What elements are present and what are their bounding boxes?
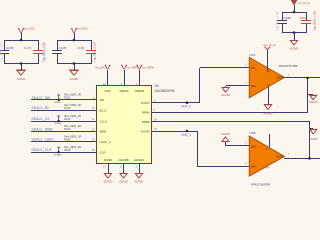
- capacitor C198: [275, 11, 291, 33]
- svg-text:SDAC1_LDAC: SDAC1_LDAC: [32, 138, 55, 142]
- svg-text:Vcc_15_Av: Vcc_15_Av: [298, 2, 311, 5]
- wire top rail group 3: [282, 11, 306, 14]
- svg-text:U7A: U7A: [250, 53, 256, 57]
- svg-text:OUTB: OUTB: [276, 155, 283, 159]
- wire net SDAC1_CLR / resistor R106: [31, 145, 105, 156]
- node VDA_0: [181, 105, 191, 109]
- svg-text:C179: C179: [24, 46, 32, 50]
- wire U7A IN+ to ground: [226, 86, 250, 89]
- svg-text:NOERC: NOERC: [54, 102, 62, 104]
- svg-text:C202: C202: [300, 16, 308, 20]
- svg-text:2IN+: 2IN+: [251, 144, 257, 148]
- wire U7B IN+ to ground: [226, 142, 250, 146]
- svg-text:R105: R105: [64, 138, 71, 142]
- wire bottom rail group 3: [282, 31, 306, 40]
- ground AGND (right of U7A): [308, 95, 318, 105]
- svg-text:2IN+: 2IN+: [251, 84, 257, 88]
- wire U7B V- stub: [269, 134, 271, 147]
- svg-text:DGND: DGND: [104, 180, 114, 184]
- svg-text:OPA227NOTBP: OPA227NOTBP: [251, 182, 270, 186]
- wire top rail group 2: [57, 39, 91, 42]
- wire OUTA: [284, 77, 320, 80]
- svg-text:VDD: VDD: [105, 89, 111, 93]
- pin RFBB: [142, 118, 158, 124]
- pin VDD power: [95, 65, 110, 86]
- capacitor C180: [77, 40, 97, 64]
- svg-text:DGND: DGND: [104, 158, 113, 162]
- wire net SDAC1_B1 / resistor R102: [31, 103, 107, 113]
- wire net SDAC1_LDAC / resistor R105: [31, 135, 111, 145]
- svg-text:AGND: AGND: [221, 93, 231, 97]
- svg-text:NOERC: NOERC: [54, 154, 62, 156]
- wire OUTB: [284, 157, 320, 160]
- svg-text:AGNDB: AGNDB: [118, 158, 128, 162]
- pin IOUTB: [141, 127, 158, 133]
- svg-text:RFBB: RFBB: [142, 120, 150, 124]
- svg-text:VREFA: VREFA: [119, 89, 129, 93]
- pin RFBA: [142, 108, 156, 114]
- svg-text:Cap_0603_2.2uF: Cap_0603_2.2uF: [275, 11, 279, 31]
- svg-text:C198: C198: [284, 16, 292, 20]
- svg-text:IOUTB: IOUTB: [141, 129, 150, 133]
- svg-text:RFBA: RFBA: [142, 110, 150, 114]
- power Vcc_15_Av (cap group 3): [291, 0, 311, 12]
- svg-text:NOERC: NOERC: [54, 123, 62, 125]
- svg-text:AGND: AGND: [309, 137, 319, 141]
- svg-text:VDA_0: VDA_0: [181, 105, 191, 109]
- ground AGND (U7A V-): [264, 105, 274, 116]
- ground AGND (right of U7B): [309, 129, 319, 142]
- svg-text:DAC8812IPW: DAC8812IPW: [155, 89, 175, 93]
- pin DGND ground: [103, 163, 113, 184]
- wire bottom rail group 1: [4, 62, 38, 70]
- svg-text:R104: R104: [64, 127, 71, 131]
- svg-text:R106: R106: [64, 148, 71, 152]
- svg-text:AGND: AGND: [135, 180, 145, 184]
- svg-text:B1_0: B1_0: [100, 109, 107, 113]
- power Vcc_15_Av (U7A V+): [263, 44, 276, 71]
- capacitor C175: [0, 40, 14, 64]
- svg-text:R103: R103: [64, 117, 71, 121]
- svg-text:C175: C175: [6, 46, 14, 50]
- svg-text:IOUTA: IOUTA: [141, 101, 150, 105]
- svg-text:Vcc_DAC: Vcc_DAC: [24, 28, 35, 31]
- svg-text:CS_0: CS_0: [100, 119, 108, 123]
- svg-text:Vcc_DAC: Vcc_DAC: [95, 66, 106, 69]
- ground AGND (group 2): [70, 70, 80, 81]
- svg-text:Cap_0603_2.2uF: Cap_0603_2.2uF: [0, 42, 4, 62]
- svg-text:V+: V+: [266, 165, 270, 169]
- capacitor C176: [43, 40, 67, 64]
- ground AGND (group 3): [290, 41, 300, 51]
- svg-text:Cap_0603_2.2uF: Cap_0603_2.2uF: [312, 11, 316, 31]
- svg-text:AGND: AGND: [290, 46, 300, 50]
- pin VREFB power: [136, 65, 154, 86]
- wire bottom rail group 2: [57, 62, 91, 70]
- svg-text:V-: V-: [267, 83, 270, 87]
- pin AGNDA ground: [135, 163, 145, 184]
- svg-text:AGND: AGND: [264, 111, 274, 115]
- DAC U-D4 DAC8812IPW body: [97, 84, 175, 164]
- wire IOUTA to op-amp U7A IN-: [152, 68, 249, 104]
- op-amp U7B: [245, 131, 289, 187]
- svg-text:D4: D4: [155, 84, 159, 88]
- svg-text:Vcc_DAC: Vcc_DAC: [77, 28, 88, 31]
- svg-text:OPA227NOTBP: OPA227NOTBP: [279, 64, 298, 68]
- svg-text:AGND: AGND: [309, 100, 319, 104]
- svg-text:Cap_0603_2.2uF: Cap_0603_2.2uF: [43, 42, 47, 62]
- svg-text:R101: R101: [64, 96, 71, 100]
- capacitor C179: [24, 40, 46, 64]
- svg-text:U7B: U7B: [250, 131, 256, 135]
- wire net SDAC1_WEB / resistor R104: [31, 124, 106, 134]
- svg-text:C176: C176: [59, 46, 67, 50]
- wire RFBB feedback: [152, 122, 310, 159]
- svg-text:SDAC1_CS: SDAC1_CS: [32, 117, 51, 121]
- svg-text:SDI: SDI: [100, 98, 105, 102]
- pin VREFA power: [121, 65, 139, 86]
- svg-text:SDAC1_CLR: SDAC1_CLR: [32, 148, 53, 152]
- svg-text:OUTA: OUTA: [276, 76, 283, 80]
- wire net SDAC1_CS / resistor R103: [31, 114, 107, 125]
- wire top rail group 1: [4, 39, 38, 42]
- svg-text:C180: C180: [77, 46, 85, 50]
- capacitor C202: [300, 11, 317, 33]
- svg-text:VREFB: VREFB: [134, 89, 144, 93]
- power Vcc_DAC (cap group 2): [71, 28, 88, 41]
- svg-text:SDAC1_B1: SDAC1_B1: [32, 106, 49, 110]
- svg-text:SDAC1_SDI: SDAC1_SDI: [32, 96, 51, 100]
- pin IOUTA: [141, 99, 156, 105]
- svg-text:AGND: AGND: [221, 132, 231, 136]
- svg-text:V-: V-: [266, 147, 269, 151]
- svg-text:CLR: CLR: [100, 151, 106, 155]
- node VDB_0: [181, 133, 191, 137]
- wire RFBA feedback: [152, 77, 308, 113]
- svg-text:LDAC_0: LDAC_0: [100, 140, 111, 144]
- svg-text:Vcc_REFA: Vcc_REFA: [126, 66, 138, 69]
- svg-text:2IN-: 2IN-: [251, 66, 256, 70]
- svg-text:VDB_0: VDB_0: [181, 133, 191, 137]
- svg-text:AGNDA: AGNDA: [134, 158, 144, 162]
- ground AGND (group 1): [17, 70, 27, 81]
- op-amp U7A: [245, 53, 298, 98]
- power Vcc_DAC (cap group 1): [18, 28, 35, 41]
- ground AGND (U7B IN+, pointing up): [221, 132, 231, 141]
- svg-text:R102: R102: [64, 106, 71, 110]
- svg-text:AGND: AGND: [70, 77, 80, 81]
- svg-text:Cap_0603_2.2uF: Cap_0603_2.2uF: [93, 42, 97, 62]
- svg-text:SDAC1_WEB: SDAC1_WEB: [32, 127, 54, 131]
- wire U7A V- to ground: [268, 87, 270, 105]
- wire IOUTB to op-amp U7B IN-: [152, 130, 249, 167]
- svg-text:AGND: AGND: [17, 77, 27, 81]
- wire net SDAC1_SDI / resistor R101: [31, 93, 105, 104]
- pin AGNDB ground: [119, 163, 129, 184]
- svg-text:AGND: AGND: [119, 180, 129, 184]
- svg-text:WEB: WEB: [100, 130, 107, 134]
- svg-text:Vcc_REFB: Vcc_REFB: [142, 66, 155, 69]
- ground AGND (U7A IN+): [221, 88, 231, 97]
- svg-text:2IN-: 2IN-: [251, 165, 256, 169]
- svg-text:Vcc_15_Av: Vcc_15_Av: [263, 44, 276, 47]
